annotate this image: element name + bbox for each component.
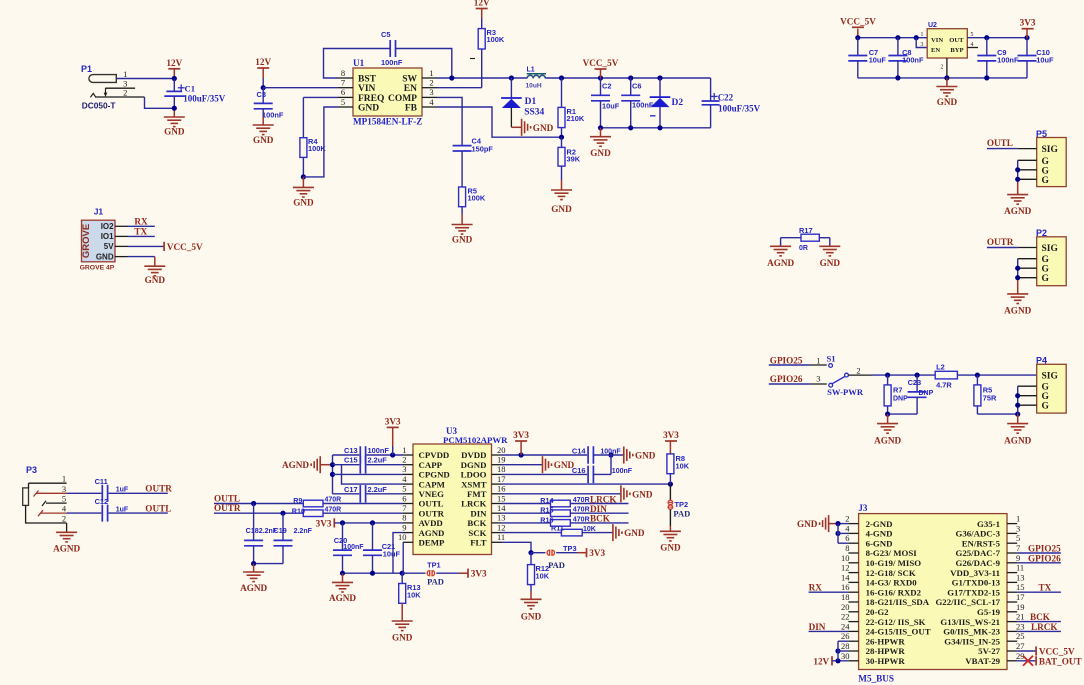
svg-text:23: 23 <box>1016 621 1025 631</box>
svg-text:10uF: 10uF <box>1036 56 1054 65</box>
svg-text:25: 25 <box>1016 631 1025 641</box>
svg-text:BCK: BCK <box>467 518 486 528</box>
svg-text:TP3: TP3 <box>563 544 577 553</box>
svg-text:100nF: 100nF <box>902 56 924 65</box>
svg-text:GND: GND <box>164 127 185 137</box>
svg-text:2: 2 <box>402 455 406 465</box>
svg-text:8: 8 <box>402 513 406 523</box>
svg-text:GND: GND <box>660 542 681 552</box>
svg-text:DVDD: DVDD <box>461 450 486 460</box>
svg-text:PAD: PAD <box>673 508 690 518</box>
svg-text:VCC_5V: VCC_5V <box>840 16 876 26</box>
svg-text:C23: C23 <box>908 378 922 387</box>
svg-text:OUTL: OUTL <box>145 503 171 513</box>
svg-text:12-G18/ SCK: 12-G18/ SCK <box>866 568 916 578</box>
svg-text:20-G2: 20-G2 <box>866 607 890 617</box>
svg-text:GROVE 4P: GROVE 4P <box>80 265 115 272</box>
svg-text:6-GND: 6-GND <box>866 538 893 548</box>
svg-text:16: 16 <box>841 582 850 592</box>
svg-text:AGND: AGND <box>767 258 794 268</box>
svg-text:C11: C11 <box>95 477 108 486</box>
svg-text:GPIO26: GPIO26 <box>770 374 803 384</box>
svg-text:GND: GND <box>632 489 653 499</box>
svg-text:MP1584EN-LF-Z: MP1584EN-LF-Z <box>353 117 422 127</box>
svg-text:13: 13 <box>1016 572 1025 582</box>
svg-text:G: G <box>1042 176 1050 186</box>
svg-text:100nF: 100nF <box>381 58 403 67</box>
svg-text:GPIO25: GPIO25 <box>1028 544 1061 554</box>
svg-text:17: 17 <box>497 474 506 484</box>
svg-text:TX: TX <box>134 227 147 237</box>
svg-text:15: 15 <box>1016 582 1025 592</box>
svg-text:26: 26 <box>841 631 850 641</box>
svg-text:GND: GND <box>937 97 958 107</box>
svg-text:3V3: 3V3 <box>513 430 529 440</box>
svg-text:R11: R11 <box>551 524 564 533</box>
svg-text:20: 20 <box>841 602 850 612</box>
svg-text:1: 1 <box>816 355 820 365</box>
svg-text:VDD_3V3-11: VDD_3V3-11 <box>950 568 1000 578</box>
svg-text:GROVE: GROVE <box>81 224 92 258</box>
svg-text:G: G <box>1042 265 1050 275</box>
svg-text:S1: S1 <box>827 354 836 364</box>
svg-text:OUTL: OUTL <box>419 499 444 509</box>
svg-text:13: 13 <box>497 513 506 523</box>
svg-text:IO1: IO1 <box>101 232 114 241</box>
svg-text:P1: P1 <box>81 64 92 74</box>
svg-text:AGND: AGND <box>240 583 267 593</box>
svg-text:10uF: 10uF <box>869 56 887 65</box>
svg-text:R7: R7 <box>893 386 902 395</box>
svg-text:SIG: SIG <box>1042 244 1059 254</box>
svg-text:GND: GND <box>96 252 114 261</box>
svg-text:AVDD: AVDD <box>419 518 443 528</box>
svg-text:5: 5 <box>341 97 345 107</box>
svg-text:SCK: SCK <box>468 528 486 538</box>
svg-text:OUTR: OUTR <box>987 237 1014 247</box>
svg-text:G: G <box>1042 166 1050 176</box>
svg-text:3: 3 <box>62 484 66 494</box>
svg-text:470R: 470R <box>573 516 590 523</box>
svg-text:P3: P3 <box>26 465 37 475</box>
svg-text:G22/IIC_SCL-17: G22/IIC_SCL-17 <box>935 597 1000 607</box>
svg-text:BAT_OUT: BAT_OUT <box>1039 656 1082 666</box>
svg-text:C18: C18 <box>246 526 259 535</box>
svg-text:EN: EN <box>404 84 417 94</box>
svg-text:3V3: 3V3 <box>471 569 487 579</box>
svg-text:XSMT: XSMT <box>461 479 487 489</box>
svg-text:1: 1 <box>62 474 66 484</box>
svg-text:C5: C5 <box>381 30 390 39</box>
svg-text:470R: 470R <box>573 507 590 514</box>
svg-text:EN/RST-5: EN/RST-5 <box>962 538 1001 548</box>
svg-text:SW-PWR: SW-PWR <box>827 387 864 397</box>
svg-text:G0/IIS_MK-23: G0/IIS_MK-23 <box>943 627 1000 637</box>
svg-text:DNP: DNP <box>893 396 908 403</box>
svg-text:4-GND: 4-GND <box>866 529 893 539</box>
svg-text:5V-27: 5V-27 <box>978 646 1000 656</box>
svg-text:10uF: 10uF <box>602 102 620 111</box>
svg-text:AGND: AGND <box>1004 436 1031 446</box>
svg-text:3V3: 3V3 <box>589 548 605 558</box>
svg-text:J3: J3 <box>858 503 868 513</box>
svg-text:3: 3 <box>816 374 820 384</box>
svg-text:470R: 470R <box>573 497 590 504</box>
svg-text:24: 24 <box>841 621 850 631</box>
svg-text:2.2uF: 2.2uF <box>368 485 388 494</box>
svg-text:10K: 10K <box>407 591 421 600</box>
svg-text:G36/ADC-3: G36/ADC-3 <box>956 529 1001 539</box>
svg-text:BCK: BCK <box>590 514 611 524</box>
svg-text:2: 2 <box>429 78 433 88</box>
svg-text:19: 19 <box>497 455 506 465</box>
svg-text:C14: C14 <box>572 446 586 455</box>
svg-text:GND: GND <box>797 519 818 529</box>
svg-text:COMP: COMP <box>388 94 417 104</box>
svg-text:17: 17 <box>1016 592 1025 602</box>
svg-text:M5_BUS: M5_BUS <box>858 674 894 684</box>
svg-text:3V3: 3V3 <box>663 430 679 440</box>
svg-text:75R: 75R <box>983 394 997 403</box>
svg-text:5: 5 <box>402 484 406 494</box>
svg-text:BCK: BCK <box>1030 612 1051 622</box>
svg-text:470R: 470R <box>325 497 342 504</box>
svg-text:24-G15/IIS_OUT: 24-G15/IIS_OUT <box>866 627 931 637</box>
svg-text:FLT: FLT <box>470 538 486 548</box>
svg-text:10uH: 10uH <box>526 83 542 90</box>
svg-text:7: 7 <box>402 503 406 513</box>
svg-text:G25/DAC-7: G25/DAC-7 <box>956 548 1001 558</box>
svg-text:C12: C12 <box>95 497 109 506</box>
svg-text:AGND: AGND <box>53 543 80 553</box>
svg-text:7: 7 <box>1016 543 1020 553</box>
svg-text:1uF: 1uF <box>116 506 129 513</box>
svg-text:BST: BST <box>358 74 377 84</box>
svg-text:VCC_5V: VCC_5V <box>583 58 619 68</box>
svg-text:C1: C1 <box>185 84 196 94</box>
svg-text:SIG: SIG <box>1042 145 1059 155</box>
svg-text:GND: GND <box>452 235 473 245</box>
svg-text:1: 1 <box>402 445 406 455</box>
svg-text:CAPM: CAPM <box>419 479 446 489</box>
svg-text:10: 10 <box>841 553 850 563</box>
svg-text:LRCK: LRCK <box>590 494 617 504</box>
svg-text:3: 3 <box>429 87 433 97</box>
svg-text:8: 8 <box>341 68 345 78</box>
svg-text:VCC_5V: VCC_5V <box>167 242 203 252</box>
svg-text:CPVDD: CPVDD <box>419 450 450 460</box>
svg-text:VBAT-29: VBAT-29 <box>965 656 1000 666</box>
svg-text:5: 5 <box>1016 533 1020 543</box>
svg-text:FMT: FMT <box>467 489 487 499</box>
svg-text:C6: C6 <box>632 82 641 91</box>
svg-text:G26/DAC-9: G26/DAC-9 <box>956 558 1001 568</box>
svg-text:100uF/35V: 100uF/35V <box>718 103 761 113</box>
svg-text:TP1: TP1 <box>427 561 441 570</box>
svg-text:1: 1 <box>123 69 127 79</box>
svg-text:10K: 10K <box>676 462 690 471</box>
svg-text:LDOO: LDOO <box>461 470 487 480</box>
svg-text:14-G3/ RXD0: 14-G3/ RXD0 <box>866 578 918 588</box>
svg-text:14: 14 <box>497 503 506 513</box>
svg-text:R14: R14 <box>540 496 553 505</box>
svg-text:22-G12/ IIS_SK: 22-G12/ IIS_SK <box>866 617 926 627</box>
svg-text:3V3: 3V3 <box>316 518 332 528</box>
svg-text:100K: 100K <box>468 194 486 203</box>
svg-text:100nF: 100nF <box>632 101 654 110</box>
svg-text:0R: 0R <box>799 245 808 252</box>
svg-text:R9: R9 <box>293 496 302 505</box>
svg-text:GND: GND <box>145 275 166 285</box>
svg-text:5V: 5V <box>104 242 114 251</box>
svg-text:8-G23/ MOSI: 8-G23/ MOSI <box>866 548 918 558</box>
svg-text:OUTR: OUTR <box>214 503 241 513</box>
svg-text:14: 14 <box>841 572 850 582</box>
svg-text:28: 28 <box>841 641 850 651</box>
svg-text:D2: D2 <box>672 98 684 108</box>
svg-text:CAPP: CAPP <box>419 460 443 470</box>
svg-text:GPIO25: GPIO25 <box>770 356 803 366</box>
svg-text:G1/TXD0-13: G1/TXD0-13 <box>952 578 1001 588</box>
svg-text:28-HPWR: 28-HPWR <box>866 646 906 656</box>
svg-text:VIN: VIN <box>358 84 376 94</box>
svg-text:10: 10 <box>398 532 407 542</box>
svg-text:18: 18 <box>841 592 850 602</box>
svg-text:G: G <box>1042 157 1050 167</box>
svg-text:11: 11 <box>1016 563 1024 573</box>
svg-text:470R: 470R <box>325 506 342 513</box>
svg-text:1: 1 <box>921 32 924 38</box>
svg-text:TX: TX <box>1039 583 1052 593</box>
svg-text:IO2: IO2 <box>101 222 114 231</box>
svg-text:30: 30 <box>841 651 850 661</box>
svg-text:G35-1: G35-1 <box>977 519 1000 529</box>
svg-text:GND: GND <box>392 633 413 643</box>
svg-text:G13/IIS_WS-21: G13/IIS_WS-21 <box>940 617 1000 627</box>
svg-text:AGND: AGND <box>1004 305 1031 315</box>
svg-text:3V3: 3V3 <box>1020 18 1036 28</box>
svg-text:EN: EN <box>931 47 940 54</box>
svg-text:100uF/35V: 100uF/35V <box>183 93 226 103</box>
svg-text:GND: GND <box>624 528 645 538</box>
svg-text:R15: R15 <box>540 506 553 515</box>
svg-text:FREQ: FREQ <box>358 94 384 104</box>
svg-text:100nF: 100nF <box>262 111 284 120</box>
svg-text:16: 16 <box>497 484 506 494</box>
svg-text:100nF: 100nF <box>612 468 633 475</box>
svg-text:G: G <box>1042 255 1050 265</box>
svg-text:22: 22 <box>841 612 850 622</box>
svg-text:R10: R10 <box>292 507 305 516</box>
svg-text:OUTR: OUTR <box>145 484 172 494</box>
svg-text:12V: 12V <box>813 656 829 666</box>
svg-text:15: 15 <box>497 493 506 503</box>
svg-text:12V: 12V <box>255 57 271 67</box>
svg-text:DEMP: DEMP <box>419 538 446 548</box>
svg-text:3: 3 <box>921 42 924 48</box>
svg-text:DIN: DIN <box>590 504 607 514</box>
svg-text:2: 2 <box>62 514 66 524</box>
svg-text:3: 3 <box>402 464 406 474</box>
svg-text:GND: GND <box>293 197 314 207</box>
svg-text:PCM5102APWR: PCM5102APWR <box>443 435 508 445</box>
svg-text:AGND: AGND <box>329 593 356 603</box>
svg-text:GND: GND <box>521 611 542 621</box>
svg-text:VCC_5V: VCC_5V <box>1039 647 1075 657</box>
svg-text:1uF: 1uF <box>116 487 129 494</box>
svg-text:U2: U2 <box>928 22 937 29</box>
svg-text:6: 6 <box>845 533 849 543</box>
svg-text:8: 8 <box>845 543 849 553</box>
svg-text:OUT: OUT <box>949 37 964 44</box>
svg-text:CPGND: CPGND <box>419 470 450 480</box>
svg-text:OUTL: OUTL <box>987 138 1013 148</box>
svg-text:GND: GND <box>820 258 841 268</box>
svg-text:1: 1 <box>1016 514 1020 524</box>
svg-text:9: 9 <box>402 522 406 532</box>
svg-text:30-HPWR: 30-HPWR <box>866 656 906 666</box>
svg-text:G: G <box>1042 274 1050 284</box>
svg-text:G34/IIS_IN-25: G34/IIS_IN-25 <box>944 636 1000 646</box>
svg-text:100nF: 100nF <box>343 544 364 551</box>
svg-text:5: 5 <box>62 494 66 504</box>
svg-text:11: 11 <box>497 532 505 542</box>
svg-text:OUTR: OUTR <box>419 508 445 518</box>
svg-text:AGND: AGND <box>282 460 309 470</box>
svg-text:G: G <box>1042 383 1050 393</box>
svg-text:LRCK: LRCK <box>461 499 487 509</box>
svg-text:GND: GND <box>635 451 656 461</box>
svg-text:100nF: 100nF <box>368 446 390 455</box>
svg-text:C16: C16 <box>572 466 586 475</box>
svg-text:L2: L2 <box>936 363 945 372</box>
svg-text:AGND: AGND <box>874 436 901 446</box>
svg-text:27: 27 <box>1016 641 1025 651</box>
svg-text:U1: U1 <box>353 58 365 68</box>
svg-text:FB: FB <box>405 103 418 113</box>
svg-text:4.7R: 4.7R <box>936 381 952 390</box>
svg-text:PAD: PAD <box>427 577 444 587</box>
svg-text:7: 7 <box>341 78 345 88</box>
svg-text:9: 9 <box>1016 553 1020 563</box>
svg-text:VNEG: VNEG <box>419 489 445 499</box>
svg-text:PAD: PAD <box>548 560 565 570</box>
svg-text:2.2nF: 2.2nF <box>294 528 313 535</box>
svg-text:2: 2 <box>845 514 849 524</box>
svg-text:VIN: VIN <box>931 37 943 44</box>
svg-text:100K: 100K <box>487 35 505 44</box>
svg-text:39K: 39K <box>567 155 581 164</box>
svg-text:GND: GND <box>253 135 274 145</box>
svg-text:L1: L1 <box>527 67 535 74</box>
svg-text:3: 3 <box>1016 523 1020 533</box>
svg-text:RX: RX <box>809 583 823 593</box>
svg-text:DC050-T: DC050-T <box>82 101 116 111</box>
svg-text:G17/TXD2-15: G17/TXD2-15 <box>947 587 1000 597</box>
svg-text:GPIO26: GPIO26 <box>1028 553 1061 563</box>
svg-text:C17: C17 <box>344 485 358 494</box>
svg-text:DNP: DNP <box>919 390 934 397</box>
svg-text:12: 12 <box>841 563 850 573</box>
svg-text:SS34: SS34 <box>524 108 544 118</box>
svg-text:J1: J1 <box>94 207 104 217</box>
svg-text:6: 6 <box>341 87 345 97</box>
svg-text:21: 21 <box>1016 612 1025 622</box>
svg-text:SIG: SIG <box>1042 372 1059 382</box>
svg-text:150pF: 150pF <box>472 145 494 154</box>
svg-text:G: G <box>1042 392 1050 402</box>
svg-text:GND: GND <box>551 204 572 214</box>
svg-text:GND: GND <box>358 103 379 113</box>
svg-text:C13: C13 <box>344 446 358 455</box>
svg-text:210K: 210K <box>567 114 585 123</box>
svg-text:100nF: 100nF <box>600 448 621 455</box>
svg-text:18: 18 <box>497 464 506 474</box>
svg-text:2: 2 <box>941 65 944 71</box>
svg-text:AGND: AGND <box>1004 206 1031 216</box>
svg-text:10K: 10K <box>536 572 550 581</box>
svg-text:12V: 12V <box>166 58 182 68</box>
svg-text:12: 12 <box>497 522 506 532</box>
svg-text:DIN: DIN <box>470 508 487 518</box>
svg-text:20: 20 <box>497 445 506 455</box>
svg-text:OUTL: OUTL <box>214 494 240 504</box>
svg-text:SW: SW <box>402 74 417 84</box>
svg-text:C3: C3 <box>257 90 266 99</box>
svg-text:2: 2 <box>123 88 127 98</box>
svg-text:GND: GND <box>533 123 554 133</box>
svg-text:C22: C22 <box>718 93 734 103</box>
svg-text:18-G21/IIS_SDA: 18-G21/IIS_SDA <box>866 597 930 607</box>
svg-text:C2: C2 <box>602 82 611 91</box>
svg-text:6: 6 <box>402 493 406 503</box>
svg-text:G: G <box>1042 402 1050 412</box>
svg-text:DGND: DGND <box>461 460 487 470</box>
svg-text:2: 2 <box>856 366 860 376</box>
svg-text:2.2uF: 2.2uF <box>368 456 388 465</box>
svg-text:AGND: AGND <box>419 528 445 538</box>
svg-text:C19: C19 <box>274 526 287 535</box>
svg-text:GND: GND <box>590 148 611 158</box>
svg-text:G5-19: G5-19 <box>977 607 1001 617</box>
svg-text:D1: D1 <box>525 97 537 107</box>
svg-text:2-GND: 2-GND <box>866 519 893 529</box>
svg-text:DIN: DIN <box>809 622 826 632</box>
svg-text:16-G16/ RXD2: 16-G16/ RXD2 <box>866 587 922 597</box>
svg-text:19: 19 <box>1016 602 1025 612</box>
svg-text:3V3: 3V3 <box>385 416 401 426</box>
svg-text:26-HPWR: 26-HPWR <box>866 636 906 646</box>
svg-text:LRCK: LRCK <box>1031 622 1058 632</box>
svg-text:1: 1 <box>429 68 433 78</box>
svg-text:10uF: 10uF <box>383 549 401 558</box>
svg-text:RX: RX <box>134 217 148 227</box>
svg-text:100nF: 100nF <box>997 56 1019 65</box>
svg-text:C15: C15 <box>344 456 358 465</box>
svg-text:BYP: BYP <box>950 47 963 54</box>
svg-text:12V: 12V <box>474 0 490 8</box>
svg-text:10-G19/ MISO: 10-G19/ MISO <box>866 558 922 568</box>
